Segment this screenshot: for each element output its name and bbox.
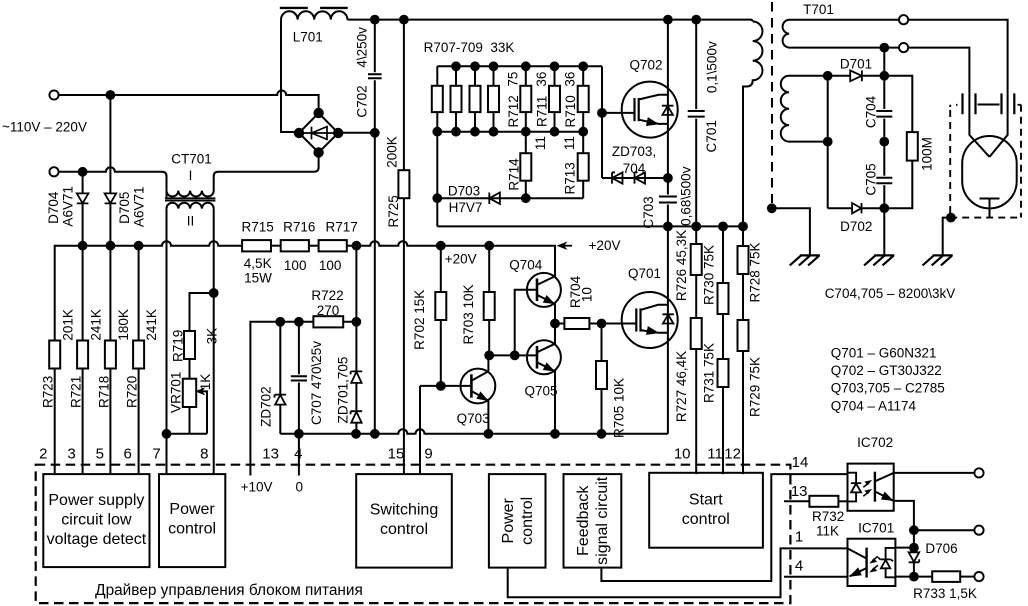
resistor R707b: [455, 66, 457, 131]
svg-text:circuit low: circuit low: [61, 512, 132, 529]
junction R702 on +20V bus: [437, 242, 445, 250]
junction D703 left: [433, 194, 441, 202]
wire AC line 2 to CT701 primary: [59, 167, 167, 198]
optocoupler IC701 LED: [886, 548, 896, 577]
svg-text:4: 4: [795, 558, 803, 575]
svg-text:D703: D703: [448, 184, 480, 199]
svg-text:R713: R713: [563, 162, 578, 194]
svg-text:R721: R721: [69, 376, 84, 408]
junction D701 cathode / C704: [880, 72, 888, 80]
diode D703: [489, 193, 500, 205]
resistor R722: [313, 316, 343, 327]
terminal middle: [974, 526, 983, 535]
block Start control: [649, 473, 763, 548]
svg-text:0,68\500v: 0,68\500v: [679, 166, 694, 226]
svg-text:R733 1,5K: R733 1,5K: [913, 586, 977, 601]
wire Q702 collector-emitter vertical: [667, 20, 669, 178]
wire L701 left to bridge left vertex: [281, 20, 299, 132]
svg-text:Power: Power: [169, 501, 215, 518]
wire pin 4 (0): [298, 434, 300, 476]
wire bridge right vertex to C702 line: [338, 132, 375, 134]
wire AC line 1 to bridge top: [59, 91, 319, 114]
resistor R721: [77, 341, 88, 369]
svg-text:4: 4: [294, 445, 302, 462]
block Power supply circuit low voltage detect: [43, 474, 149, 567]
transformer CT701 secondary winding: [167, 203, 214, 209]
svg-text:Q704: Q704: [509, 258, 543, 273]
svg-text:R720: R720: [125, 376, 140, 408]
CRT bulb: [962, 136, 1017, 208]
optocoupler IC701 phototransistor: [865, 548, 867, 578]
svg-text:R714: R714: [507, 158, 522, 191]
svg-text:A6V71: A6V71: [61, 186, 76, 227]
inductor L701: [281, 11, 347, 19]
wire heater top to CRT: [908, 20, 1007, 94]
capacitor C705: [876, 142, 892, 209]
capacitor C703: [659, 178, 677, 226]
svg-text:1K: 1K: [198, 374, 213, 391]
resistor R711: [554, 66, 556, 131]
svg-text:201K: 201K: [60, 309, 75, 341]
resistor R713: [582, 132, 584, 199]
resistor R718: [105, 341, 116, 369]
svg-text:R718: R718: [96, 376, 111, 408]
svg-text:Q701: Q701: [628, 266, 661, 281]
svg-text:VR701: VR701: [169, 372, 184, 413]
junction Q705 emitter: [551, 430, 559, 438]
svg-text:Q702 – GT30J322: Q702 – GT30J322: [831, 363, 942, 378]
junction C703 bottom on bus: [664, 223, 672, 231]
svg-text:C704,705 – 8200\3kV: C704,705 – 8200\3kV: [825, 286, 956, 301]
svg-text:R725: R725: [386, 195, 401, 227]
svg-text:R711: R711: [534, 96, 549, 127]
junction bridge left vertex: [295, 129, 303, 137]
wire pin 8 (CT701 secondary right): [213, 209, 215, 475]
svg-text:+20V: +20V: [589, 238, 621, 253]
wire pin 9: [419, 386, 421, 474]
wire top bus y=19.6: [347, 20, 752, 22]
svg-text:180K: 180K: [116, 309, 131, 341]
zener ZD704: [635, 172, 646, 183]
resistor R703: [488, 246, 490, 292]
svg-text:200K: 200K: [385, 136, 400, 168]
wire IC701 pin 4 stub: [784, 576, 848, 578]
svg-text:11: 11: [533, 136, 548, 150]
junction CRT ground: [947, 214, 955, 222]
terminal IC702 collector: [974, 468, 983, 477]
svg-text:ZD703,: ZD703,: [612, 144, 656, 159]
svg-text:R729 75K: R729 75K: [748, 357, 763, 417]
svg-text:36: 36: [534, 72, 549, 87]
block Feedback signal circuit: [564, 474, 622, 567]
resistor R702: [440, 246, 442, 292]
junction middle terminal: [910, 526, 918, 534]
optocoupler IC702 box: [848, 464, 894, 511]
resistor R710: [582, 66, 584, 131]
diode D701: [850, 70, 862, 81]
resistor R717: [319, 240, 347, 251]
svg-text:~110V – 220V: ~110V – 220V: [2, 120, 87, 135]
svg-text:0: 0: [296, 480, 304, 495]
terminal heater bottom: [899, 43, 908, 52]
terminal heater top: [899, 15, 908, 24]
svg-text:Драйвер управления блоком пита: Драйвер управления блоком питания: [95, 582, 363, 599]
wire Q705 base row: [489, 354, 537, 356]
svg-text:R723: R723: [41, 376, 56, 408]
resistor R704: [555, 323, 564, 325]
svg-text:15: 15: [388, 445, 405, 462]
resistor R726: [695, 226, 697, 244]
svg-text:13: 13: [262, 445, 279, 462]
optocoupler IC702 light arrows: [863, 483, 869, 497]
resistor R715: [242, 240, 271, 251]
wire R707 group mid bus y=131.7: [437, 131, 583, 133]
svg-text:IC702: IC702: [857, 435, 893, 450]
resistor R719: [190, 293, 214, 379]
wire R707 group top bus y=66.3: [437, 65, 602, 67]
bridge rectifier diamond: [299, 113, 338, 153]
diode D702: [852, 203, 861, 213]
junction core to ground: [768, 204, 776, 212]
svg-text:signal circuit: signal circuit: [594, 476, 611, 565]
junction C702 / bridge plus: [371, 129, 379, 137]
wire to IC701 LED bottom: [895, 576, 914, 578]
junction ZD row / C703 top: [664, 174, 672, 182]
wire Q701 collector-emitter vertical: [667, 226, 669, 433]
ground (T701 core): [790, 255, 820, 265]
svg-text:Power: Power: [500, 497, 517, 543]
svg-text:1: 1: [795, 529, 803, 546]
svg-text:I: I: [189, 168, 193, 183]
svg-text:13: 13: [791, 483, 808, 500]
svg-text:241K: 241K: [144, 309, 159, 341]
junction C701 top: [692, 16, 700, 24]
svg-text:Q703,705 – C2785: Q703,705 – C2785: [831, 381, 945, 396]
zener ZD703: [612, 172, 623, 183]
svg-text:R702 15K: R702 15K: [412, 290, 427, 350]
junction Q702 gate: [598, 109, 606, 117]
svg-text:75: 75: [506, 72, 521, 87]
junction bridge top vertex: [314, 109, 322, 117]
svg-text:8: 8: [200, 445, 208, 462]
wire D703 row y=198.2: [437, 197, 583, 199]
wire Q702 gate: [602, 112, 634, 114]
svg-text:R716: R716: [283, 220, 315, 235]
junction C704-C705: [880, 138, 888, 146]
potentiometer VR701: [183, 379, 196, 407]
svg-text:L701: L701: [293, 29, 323, 44]
svg-text:R726 45,3K: R726 45,3K: [674, 230, 689, 301]
wire Q704 base: [515, 290, 537, 356]
resistor R733: [914, 576, 932, 578]
svg-text:Q703: Q703: [457, 411, 490, 426]
svg-text:Q702: Q702: [629, 57, 662, 72]
svg-text:C707 470\25v: C707 470\25v: [309, 341, 324, 425]
junction R704 left / Q704-Q705: [551, 320, 559, 328]
wire IC702 emitter to D706 chain: [894, 501, 914, 530]
resistor R730: [722, 226, 724, 283]
wire pin 13 (+10V): [250, 322, 280, 476]
wire Q703 emitter: [471, 391, 488, 434]
junction D706 bottom: [910, 573, 918, 581]
svg-text:6: 6: [124, 445, 132, 462]
CRT cathode: [980, 199, 1000, 218]
svg-text:R731 75K: R731 75K: [702, 343, 717, 403]
junction secondary bottom tie: [824, 138, 832, 146]
node +20V arrow: [562, 245, 572, 247]
junction dots mid bus: [433, 128, 441, 136]
wire Q704 emitter: [537, 295, 555, 324]
ground (CRT): [923, 255, 953, 265]
junction R720 on bus: [135, 242, 143, 250]
driver board dashed box: [36, 465, 791, 603]
svg-text:II: II: [187, 214, 195, 229]
optocoupler IC702 LED: [848, 473, 857, 502]
svg-text:+10V: +10V: [241, 480, 273, 495]
junction bridge right vertex: [334, 129, 342, 137]
wire Q701 gate: [602, 323, 637, 325]
svg-text:control: control: [168, 521, 216, 538]
resistor R723: [49, 341, 60, 369]
junction C702 top: [371, 16, 379, 24]
svg-text:H7V7: H7V7: [449, 200, 483, 215]
junction Q704 base tie: [511, 352, 519, 360]
transformer T701 core dashed line: [771, 2, 773, 203]
svg-text:control: control: [682, 511, 730, 528]
terminal AC line 2: [49, 167, 58, 176]
svg-text:10: 10: [579, 287, 594, 302]
resistor R716: [281, 240, 309, 251]
inductor L701 core marks: [280, 7, 348, 9]
svg-text:+20V: +20V: [445, 252, 477, 267]
wire lower secondary left vertical: [827, 76, 829, 208]
terminal AC line 1: [49, 90, 58, 99]
svg-text:T701: T701: [803, 2, 834, 17]
resistor R712: [525, 66, 527, 131]
transistor Q701 (IGBT): [622, 292, 678, 348]
CRT dashed envelope box: [950, 105, 1021, 218]
svg-text:control: control: [380, 521, 428, 538]
junction Q701 gate / R704 / R705: [598, 320, 606, 328]
junction VR701 bottom on pin 7 wire: [163, 430, 171, 438]
svg-text:11: 11: [562, 136, 577, 150]
diode D704: [82, 172, 84, 246]
zener ZD705: [355, 423, 357, 434]
svg-text:3: 3: [67, 445, 75, 462]
transistor Q705: [527, 340, 561, 374]
svg-text:R730 75K: R730 75K: [702, 245, 717, 305]
wire pin 13 stub: [784, 500, 809, 502]
svg-text:Q704 – A1174: Q704 – A1174: [831, 398, 917, 413]
junction D702 / C705 bottom: [880, 204, 888, 212]
svg-text:100M: 100M: [920, 137, 935, 171]
svg-text:R719: R719: [171, 330, 186, 362]
resistor R727: [695, 275, 697, 318]
svg-text:15W: 15W: [244, 271, 272, 286]
junction R719 top on pin 8 wire: [210, 289, 218, 297]
capacitor C704: [876, 48, 892, 142]
svg-text:R712: R712: [506, 95, 521, 127]
wire CRT to ground: [943, 218, 951, 255]
wire left bus y=245.7: [55, 241, 242, 340]
resistor R720: [133, 341, 144, 369]
svg-text:36: 36: [563, 72, 578, 87]
svg-text:A6V71: A6V71: [132, 187, 147, 228]
transistor Q703: [461, 369, 496, 404]
wire pin 7 (CT701 secondary left): [166, 209, 168, 475]
wire Q703 base: [420, 385, 471, 387]
svg-text:Q705: Q705: [524, 384, 557, 399]
wire pin 5: [109, 246, 111, 474]
svg-text:11K: 11K: [816, 523, 839, 538]
svg-text:ZD701,705: ZD701,705: [336, 357, 351, 424]
junction R722 feed on +20V bus: [353, 242, 361, 250]
svg-text:D701: D701: [840, 57, 872, 72]
junction Q703 emitter: [485, 430, 493, 438]
zener ZD701: [355, 322, 357, 411]
svg-text:270: 270: [317, 303, 340, 318]
svg-text:R705 10K: R705 10K: [612, 378, 627, 438]
diode D705: [109, 95, 111, 246]
wire Q704 collector: [537, 246, 555, 285]
junction R705 bottom: [598, 430, 606, 438]
wire R722 right to +20V bus: [355, 246, 357, 322]
junction R702 bottom / Q703 base: [437, 382, 445, 390]
junction T701 primary bottom on bus: [739, 223, 747, 231]
svg-text:7: 7: [152, 445, 160, 462]
wire heater bottom to CRT: [908, 48, 969, 94]
svg-text:9: 9: [424, 445, 432, 462]
resistor R728: [742, 226, 744, 246]
capacitor C701: [688, 20, 705, 227]
svg-text:C702: C702: [355, 85, 370, 117]
junction C704 top feed: [880, 44, 888, 52]
wire Q705 collector: [537, 324, 555, 353]
diode D706: [913, 548, 915, 552]
junction bridge bottom vertex: [314, 148, 322, 156]
svg-text:704: 704: [623, 161, 646, 176]
zener ZD702: [279, 322, 281, 434]
svg-text:5: 5: [96, 445, 104, 462]
svg-text:R707-709 33K: R707-709 33K: [424, 40, 515, 55]
block Power control (vertical): [489, 474, 546, 567]
svg-text:C701: C701: [704, 120, 719, 152]
ground (secondary network): [864, 255, 894, 265]
svg-text:Switching: Switching: [370, 502, 438, 519]
svg-text:14: 14: [792, 454, 809, 471]
CRT pin link bar: [978, 104, 1000, 106]
wire core to ground: [772, 208, 810, 255]
terminal R733: [974, 572, 983, 581]
resistor R708: [474, 66, 476, 131]
wire to IC701 LED top: [895, 530, 914, 547]
wire pin 2: [54, 369, 56, 475]
svg-text:Power supply: Power supply: [48, 492, 144, 509]
svg-text:4\250v: 4\250v: [355, 27, 370, 68]
junction R703 bottom / Q705 base: [485, 352, 493, 360]
svg-text:ZD702: ZD702: [259, 386, 274, 427]
junction R722 right / ZD701 top: [353, 318, 361, 326]
svg-text:4,5K: 4,5K: [244, 256, 272, 271]
junction Q702 collector on top bus: [664, 16, 672, 24]
wire Q702 gate vertical: [601, 66, 603, 178]
svg-text:R703 10K: R703 10K: [461, 284, 476, 344]
junction R725 top: [400, 16, 408, 24]
transformer T701 lower secondary winding: [781, 76, 828, 142]
svg-text:11: 11: [707, 445, 723, 462]
svg-text:100: 100: [284, 258, 307, 273]
svg-text:Q701 – G60N321: Q701 – G60N321: [831, 345, 937, 360]
junction C702 bottom: [371, 430, 379, 438]
block Switching control: [356, 474, 452, 567]
svg-text:R722: R722: [311, 288, 343, 303]
svg-text:12: 12: [724, 445, 741, 462]
resistor R707a: [436, 66, 438, 131]
diode inside Q701: [662, 314, 674, 323]
svg-text:C705: C705: [864, 163, 879, 195]
wire pin 3: [82, 246, 84, 474]
resistor R705: [601, 324, 603, 362]
junction R721/D704 on bus: [79, 242, 87, 250]
svg-text:D706: D706: [925, 541, 957, 556]
wire C705 bottom to ground: [883, 208, 885, 255]
svg-text:R710: R710: [563, 95, 578, 127]
transformer CT701 primary winding: [167, 153, 319, 197]
svg-text:241K: 241K: [88, 309, 103, 341]
junction dots top bus: [452, 62, 460, 70]
optocoupler IC701 light arrows: [873, 556, 878, 569]
svg-text:R732: R732: [812, 509, 844, 524]
svg-text:R728 75K: R728 75K: [748, 242, 763, 302]
svg-text:0,1\500v: 0,1\500v: [705, 41, 720, 93]
junction C701 bottom on bus: [692, 223, 700, 231]
resistor R725: [403, 20, 405, 475]
svg-text:C703: C703: [641, 196, 656, 228]
capacitor C702: [368, 20, 382, 434]
resistor 100M: [884, 76, 912, 132]
svg-text:2: 2: [39, 445, 47, 462]
resistor R729: [742, 274, 744, 320]
resistor R732: [809, 496, 838, 507]
junction R730 top on bus: [719, 223, 727, 231]
svg-text:R727 46,4K: R727 46,4K: [674, 351, 689, 422]
capacitor C707: [291, 322, 307, 434]
block Power control: [159, 474, 225, 567]
transformer T701 upper secondary winding: [783, 20, 899, 48]
junction ZD701,705 bottom: [352, 430, 360, 438]
wire Feedback block to IC702 pin 14: [601, 474, 847, 581]
wire Q703 collector: [471, 355, 488, 380]
junction R703 on +20V bus: [485, 242, 493, 250]
optocoupler IC701 box: [848, 539, 896, 586]
wire D701 row: [789, 75, 884, 77]
resistor R714: [525, 132, 527, 199]
junction ZD702 top: [276, 318, 284, 326]
resistor R731: [722, 314, 724, 359]
svg-text:R715: R715: [242, 220, 274, 235]
junction D706 top: [910, 544, 918, 552]
junction lower secondary top / D701: [824, 72, 832, 80]
junction R714 bottom: [522, 194, 530, 202]
svg-text:voltage detect: voltage detect: [47, 531, 147, 548]
wire middle terminal: [914, 529, 975, 531]
transformer T701 primary winding: [743, 22, 763, 227]
svg-text:3K: 3K: [205, 328, 220, 345]
svg-text:CT701: CT701: [171, 151, 212, 166]
transformer CT701 core: [165, 198, 215, 200]
junction R718/D705 on bus: [107, 242, 115, 250]
wire Q705 emitter: [537, 362, 555, 434]
